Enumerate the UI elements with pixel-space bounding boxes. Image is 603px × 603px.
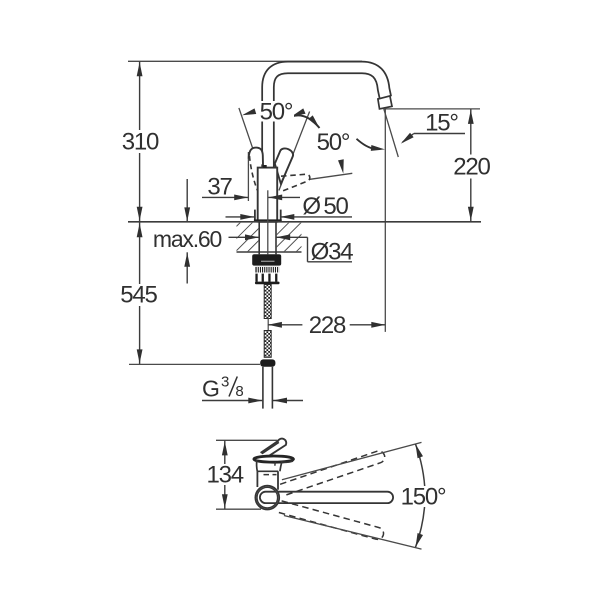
dome base line (257, 470, 278, 472)
hidden edge below paddle (dashed) (274, 462, 277, 468)
dim G3/8 line right (273, 400, 303, 402)
swivel ring annulus fill (255, 486, 279, 510)
dim 545 line (139, 222, 141, 365)
15deg arrow (399, 133, 414, 146)
svg-text:50°: 50° (260, 99, 293, 126)
white text backgrounds breaking dimension lines (119, 101, 491, 336)
dome right edge (280, 462, 282, 472)
arrowheads (137, 62, 474, 403)
arrow dim O34 left (245, 234, 259, 240)
50deg #1 left arrow (241, 108, 256, 118)
dome left edge (256, 460, 259, 472)
150deg arc arrowhead bottom (413, 533, 423, 548)
hose end fitting (260, 359, 275, 366)
spout tube (268, 67, 385, 170)
shank left edge (258, 222, 260, 255)
arrow dim 228 right (371, 322, 385, 328)
left handle (vertical position) (249, 148, 263, 165)
50deg #1 arc arrow upper (290, 108, 305, 119)
bottom pipe left edge (262, 367, 264, 409)
base flange right edge (280, 210, 282, 222)
arrow dim 220 bottom (468, 207, 474, 221)
svg-text:3: 3 (221, 374, 229, 391)
countertop top line (128, 221, 481, 223)
15deg leader diagonal (403, 134, 414, 143)
arrow dim 545 top (137, 223, 143, 237)
hidden dashed lines inside body (264, 474, 277, 476)
svg-text:Ø34: Ø34 (311, 239, 354, 266)
50deg #2 down arrow (338, 159, 346, 174)
shank right edge (275, 222, 277, 255)
arrow dim G3/8 right (273, 398, 287, 404)
dim G3/8 line left (202, 400, 262, 402)
150deg arc upper segment (416, 444, 426, 493)
svg-text:228: 228 (309, 312, 346, 339)
main drawing group: upper elevation view (128, 61, 481, 408)
thin angle line lower (284, 516, 422, 550)
max.60 lower arrow line (186, 252, 188, 283)
134 top extension line (216, 439, 278, 441)
arrow dim 37 left (234, 195, 248, 201)
svg-text:150°: 150° (401, 484, 446, 511)
body column left edge (256, 471, 258, 487)
svg-text:37: 37 (207, 174, 232, 201)
white text backgrounds bottom view (207, 464, 244, 485)
arrow dim G3/8 left (248, 398, 262, 404)
top extension line (spout top level) (128, 60, 362, 62)
50deg arc #1 (right of first label) (292, 115, 320, 128)
center line in hose gap (267, 318, 269, 333)
swivel ring inner circle (257, 487, 278, 508)
body column right edge (277, 471, 279, 489)
svg-text:134: 134 (206, 462, 243, 489)
dimension texts (119, 99, 491, 402)
svg-text:15°: 15° (425, 110, 458, 137)
svg-text:50°: 50° (317, 129, 350, 156)
outlet level extension line (384, 108, 480, 110)
base flange left edge (254, 210, 256, 222)
dim 37 line left (202, 196, 248, 198)
dim O34 label underline (308, 261, 353, 263)
bottom pipe right edge (271, 367, 273, 409)
arrow dim O50 left (240, 214, 254, 220)
G3/8 slash (229, 377, 237, 397)
mounting bracket (255, 274, 280, 285)
dim 37 line right (268, 196, 300, 198)
50deg arc #2 (right of second label) (357, 139, 376, 149)
15deg label underline (414, 133, 465, 135)
lever paddle (ellipse edge-on) (254, 456, 294, 462)
150deg arc arrowhead top (413, 443, 423, 458)
arrow dim 310 top (137, 62, 143, 76)
arrow dim max.60 lower (184, 253, 190, 267)
center line through body (267, 190, 269, 254)
arrow dim 134 top (222, 441, 228, 455)
left angle reference line (to handle cap) (239, 108, 253, 148)
dim O34 leader vertical jog (307, 237, 309, 261)
countertop bottom line (237, 251, 302, 253)
paddle underside curve (281, 461, 294, 462)
arrow dim 134 bottom (222, 494, 228, 508)
arrow dim O34 right (276, 234, 290, 240)
DIMENSIONS (129, 61, 471, 400)
countertop hatching left (237, 223, 259, 252)
max.60 upper arrow line (186, 179, 188, 222)
aerator at spout outlet (378, 96, 392, 109)
545 bottom extension line (129, 363, 260, 365)
dim O50 leader right (280, 216, 352, 218)
svg-text:545: 545 (120, 282, 157, 309)
svg-text:Ø 50: Ø 50 (302, 193, 348, 220)
braided hose lower (264, 331, 271, 358)
arrow dim O50 right (280, 214, 294, 220)
mounting nut (black) (252, 254, 281, 265)
dim 310 line (139, 61, 141, 222)
arrow dim 310 bottom (137, 207, 143, 221)
dim O34 leader left (229, 236, 260, 238)
dashed spout position upper (280, 451, 385, 496)
svg-text:8: 8 (235, 383, 243, 400)
dim 228 line left (268, 324, 303, 326)
150deg arc lower segment (416, 502, 425, 547)
svg-text:max.60: max.60 (153, 226, 222, 252)
spout tube (solid position) (260, 492, 393, 503)
arrow dim 228 left (268, 322, 282, 328)
extension line for 37 dimension (247, 152, 249, 201)
arrow dim 220 top (468, 110, 474, 124)
svg-text:310: 310 (122, 129, 159, 156)
dim O34 leader right (276, 236, 307, 238)
arrow dim max.60 upper (184, 207, 190, 221)
handle pivot dark mark (263, 165, 267, 168)
50deg #1 arc arrow lower (308, 115, 321, 129)
thin angle line upper (282, 442, 422, 479)
dashed handle leader line (310, 173, 352, 179)
15 degree tilted outlet axis line (384, 109, 399, 157)
countertop hatching right (277, 223, 302, 252)
dim O50 leader left (226, 216, 255, 218)
arrow dim 37 right (268, 195, 282, 201)
vertical reference line from outlet down to 228 extension (384, 109, 386, 332)
50deg #2 arc arrow (371, 145, 386, 152)
dashed spout position lower (278, 501, 383, 540)
base plate line (254, 219, 282, 221)
134 dim line (224, 440, 226, 509)
dim 228 line right (350, 324, 386, 326)
134 bottom extension line (216, 508, 261, 510)
svg-text:G: G (202, 376, 220, 402)
lever blade (top view side) (261, 439, 287, 457)
dim 220 line (470, 109, 472, 222)
swivel ring outer circle (255, 486, 279, 510)
svg-text:220: 220 (453, 153, 490, 180)
faucet body (258, 168, 278, 222)
braided hose upper (264, 285, 271, 319)
arrow dim 545 bottom (137, 349, 143, 363)
knurled ring (255, 267, 279, 273)
dashed handle (lowest position) (280, 174, 310, 192)
right handle tangent line (279, 112, 310, 191)
right handle (tilted 50deg position) (275, 148, 293, 183)
